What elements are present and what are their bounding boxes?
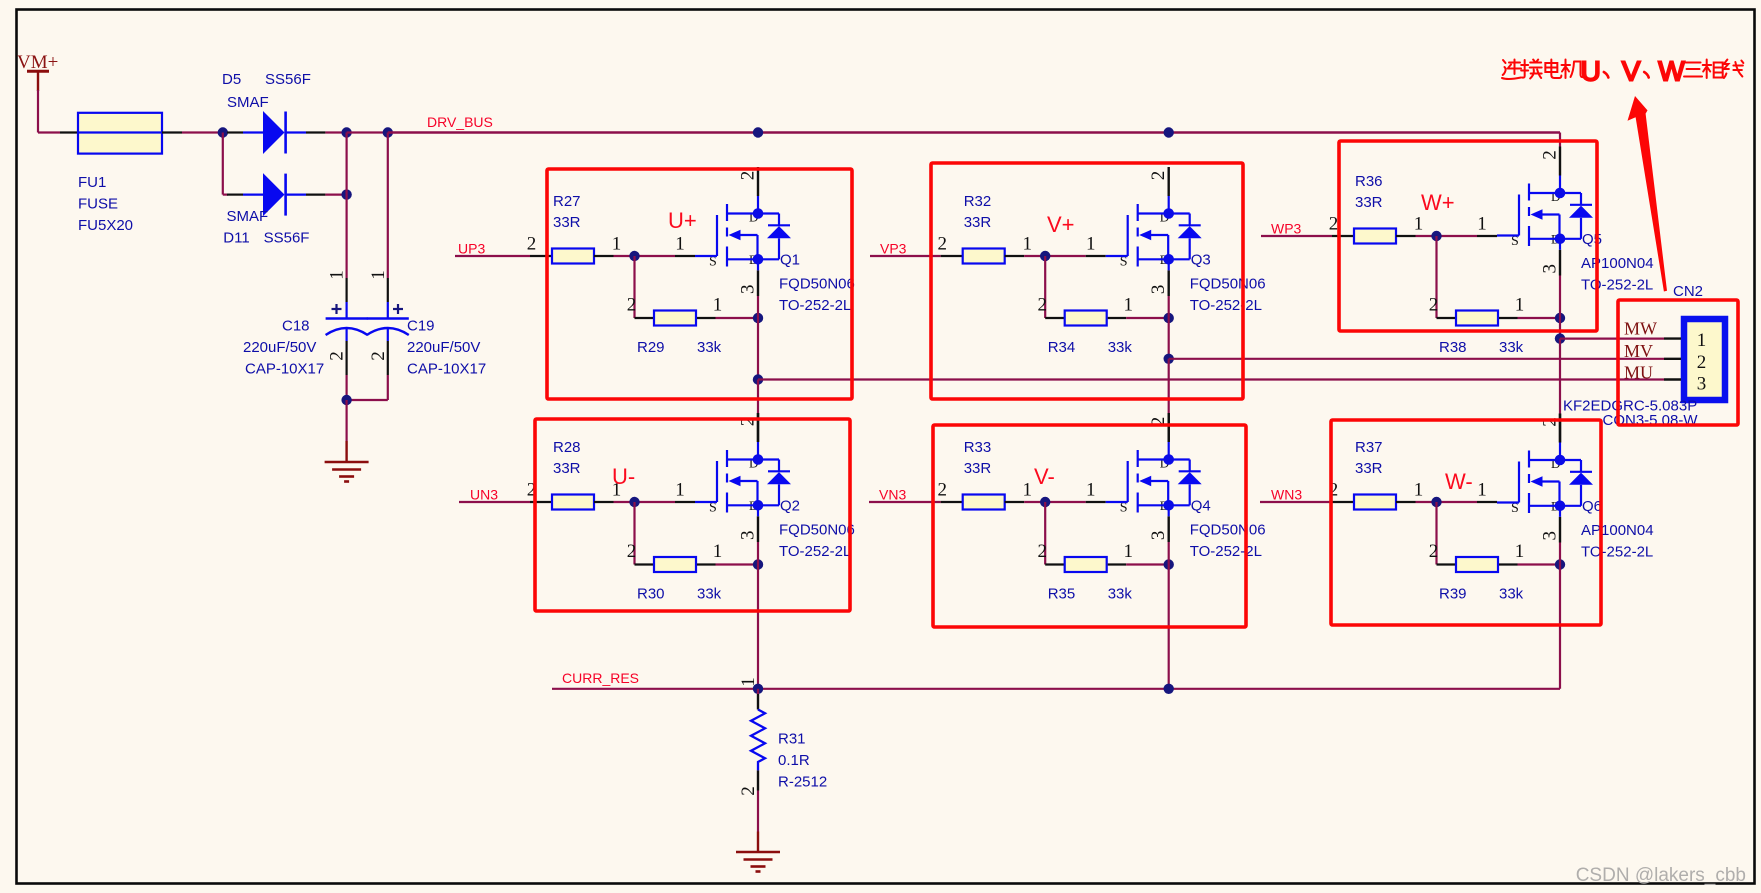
wire MU phase output (758, 378, 1664, 380)
wire gate junction down to R38 (1435, 236, 1437, 318)
svg-text:1: 1 (612, 234, 622, 255)
svg-text:Q4: Q4 (1191, 498, 1211, 515)
gate node junction (1477, 235, 1497, 237)
svg-text:1: 1 (1022, 480, 1032, 501)
node R31 tap junction (753, 684, 763, 694)
resistor R35 33k (1045, 563, 1065, 565)
svg-text:1: 1 (738, 677, 759, 687)
svg-text:U+: U+ (668, 208, 697, 233)
svg-text:1: 1 (713, 295, 723, 316)
annotation box U+ (547, 169, 852, 399)
svg-text:UN3: UN3 (470, 486, 498, 502)
transistor Q2 FQD50N06 (695, 442, 791, 516)
svg-text:CURR_RES: CURR_RES (562, 670, 639, 686)
wire node A down to D11 (222, 133, 224, 195)
svg-text:2: 2 (1429, 295, 1439, 316)
connector CN2 KF2EDGRC body (1684, 319, 1725, 400)
wire gate junction down to R35 (1044, 502, 1046, 565)
transistor Q6 AP100N04 (1497, 443, 1593, 517)
svg-text:Q1: Q1 (780, 252, 800, 269)
wire Q6 source to CURR_RES (1559, 543, 1561, 689)
svg-text:FUSE: FUSE (78, 196, 118, 213)
svg-text:R32: R32 (964, 193, 992, 210)
svg-text:CN2: CN2 (1673, 283, 1703, 300)
wire MW phase output (1560, 338, 1664, 340)
wire UN3 to R28 (459, 501, 530, 503)
svg-text:1: 1 (675, 234, 685, 255)
svg-text:R27: R27 (553, 193, 581, 210)
svg-text:D11: D11 (223, 230, 249, 247)
svg-text:W: W (1658, 56, 1685, 87)
diode D5 SS56F (227, 131, 243, 133)
svg-text:AP100N04: AP100N04 (1581, 255, 1654, 272)
svg-text:FQD50N06: FQD50N06 (779, 276, 855, 293)
svg-text:Q6: Q6 (1582, 498, 1602, 515)
annotation title text (1502, 56, 1743, 87)
wire Q5 source to W output node (1559, 276, 1561, 339)
svg-text:UP3: UP3 (458, 240, 485, 256)
wire WN3 to R37 (1260, 501, 1332, 503)
annotation box U- (535, 419, 850, 611)
ground capacitor bank (325, 462, 369, 482)
svg-text:1: 1 (675, 480, 685, 501)
svg-text:MU: MU (1624, 363, 1653, 383)
svg-text:V-: V- (1034, 464, 1055, 489)
node C19 tap junction (383, 127, 393, 137)
svg-text:TO-252-2L: TO-252-2L (1581, 544, 1653, 561)
CN2 pin 1 stub (1664, 337, 1681, 339)
svg-text:FU5X20: FU5X20 (78, 217, 133, 234)
capacitor C19 220uF/50V (387, 133, 389, 279)
annotation box CN2 (1618, 300, 1738, 425)
svg-text:33k: 33k (1499, 586, 1524, 603)
svg-text:WN3: WN3 (1271, 486, 1302, 502)
svg-text:R30: R30 (637, 586, 665, 603)
svg-text:TO-252-2L: TO-252-2L (1190, 297, 1262, 314)
svg-text:MW: MW (1624, 319, 1657, 339)
resistor R28 33R (530, 501, 552, 503)
source pin stub Q6 (1559, 517, 1561, 543)
drain pin stub Q6 (1559, 414, 1561, 443)
gate node junction (1086, 255, 1106, 257)
drain pin stub Q2 (757, 413, 759, 442)
svg-text:1: 1 (1515, 295, 1525, 316)
wire gate junction down to R29 (633, 256, 635, 318)
svg-text:1: 1 (1515, 541, 1525, 562)
svg-text:33R: 33R (964, 460, 992, 477)
node cap ground junction (341, 395, 351, 405)
svg-text:2: 2 (368, 351, 389, 361)
annotation box W+ (1339, 141, 1597, 331)
svg-text:220uF/50V: 220uF/50V (407, 339, 480, 356)
svg-text:R36: R36 (1355, 173, 1383, 190)
wire fuse to diode node (182, 131, 223, 133)
wire D5 node to C19 node (347, 131, 388, 133)
svg-text:1: 1 (1697, 330, 1707, 351)
resistor R39 33k (1437, 563, 1457, 565)
wire MV phase output (1169, 358, 1664, 360)
svg-text:TO-252-2L: TO-252-2L (1581, 277, 1653, 294)
wire U output down to Q2 drain (757, 380, 759, 414)
svg-text:Q3: Q3 (1191, 252, 1211, 269)
svg-text:2: 2 (1429, 541, 1439, 562)
resistor R37 33R (1332, 501, 1354, 503)
svg-text:W+: W+ (1421, 190, 1455, 215)
svg-text:CSDN @lakers_cbb: CSDN @lakers_cbb (1576, 865, 1746, 886)
wire UP3 to R27 (455, 255, 530, 257)
svg-text:W-: W- (1445, 469, 1473, 494)
svg-text:V: V (1622, 56, 1641, 87)
gate node junction (1086, 501, 1106, 503)
svg-text:FQD50N06: FQD50N06 (1190, 522, 1266, 539)
transistor Q3 FQD50N06 (1106, 196, 1202, 270)
svg-text:FU1: FU1 (78, 174, 106, 191)
wire VP3 to R32 (870, 255, 941, 257)
svg-text:TO-252-2L: TO-252-2L (779, 297, 851, 314)
svg-text:2: 2 (627, 541, 637, 562)
svg-text:FQD50N06: FQD50N06 (779, 522, 855, 539)
gate node junction (675, 255, 695, 257)
svg-text:CAP-10X17: CAP-10X17 (245, 361, 324, 378)
source pin stub Q1 (757, 270, 759, 296)
wire W output down to Q6 drain (1559, 339, 1561, 414)
ground shunt (736, 852, 780, 872)
svg-text:2: 2 (738, 786, 759, 796)
svg-text:C18: C18 (282, 318, 310, 335)
svg-text:R35: R35 (1048, 586, 1076, 603)
svg-text:R-2512: R-2512 (778, 774, 827, 791)
source pin stub Q5 (1559, 250, 1561, 276)
svg-text:2: 2 (527, 234, 537, 255)
svg-text:VP3: VP3 (880, 240, 907, 256)
transistor Q1 FQD50N06 (695, 196, 791, 270)
svg-text:3: 3 (1148, 531, 1169, 541)
svg-text:3: 3 (1148, 285, 1169, 295)
svg-text:TO-252-2L: TO-252-2L (1190, 543, 1262, 560)
svg-text:0.1R: 0.1R (778, 752, 810, 769)
annotation arrow to CN2 (1628, 96, 1668, 292)
wire Q4 source to CURR_RES (1168, 542, 1170, 689)
svg-text:33k: 33k (697, 586, 722, 603)
svg-text:SMAF: SMAF (227, 94, 269, 111)
wire R31 to ground (757, 791, 759, 832)
drain pin stub Q1 (757, 167, 759, 196)
svg-text:2: 2 (1037, 541, 1047, 562)
wire gate junction down to R34 (1044, 256, 1046, 318)
node after D11 junction (341, 189, 351, 199)
transistor Q4 FQD50N06 (1106, 442, 1202, 516)
svg-text:33R: 33R (553, 214, 581, 231)
wire WP3 to R36 (1261, 235, 1332, 237)
diode D11 SS56F (227, 194, 243, 196)
svg-text:2: 2 (327, 351, 348, 361)
annotation box V- (933, 425, 1246, 627)
source pin stub Q4 (1167, 516, 1169, 542)
svg-text:R31: R31 (778, 731, 806, 748)
svg-text:3: 3 (1697, 374, 1707, 395)
svg-text:VN3: VN3 (879, 486, 906, 502)
svg-text:1: 1 (327, 270, 348, 280)
svg-text:FQD50N06: FQD50N06 (1190, 276, 1266, 293)
svg-text:R34: R34 (1048, 339, 1076, 356)
svg-text:33R: 33R (1355, 460, 1383, 477)
svg-text:R39: R39 (1439, 586, 1467, 603)
svg-text:33k: 33k (1108, 586, 1133, 603)
svg-text:SS56F: SS56F (265, 71, 311, 88)
svg-text:33R: 33R (964, 214, 992, 231)
node U drain tap (753, 127, 763, 137)
wire Q2 source to CURR_RES (757, 542, 759, 689)
svg-text:3: 3 (738, 285, 759, 295)
svg-text:MV: MV (1624, 341, 1653, 361)
wire C19 bottom to C18 bottom (347, 399, 388, 401)
svg-text:3: 3 (1540, 264, 1561, 274)
svg-text:D5: D5 (222, 71, 241, 88)
gate node junction (1477, 501, 1497, 503)
svg-text:AP100N04: AP100N04 (1581, 522, 1654, 539)
svg-text:1: 1 (1414, 480, 1424, 501)
svg-text:2: 2 (937, 234, 947, 255)
svg-text:2: 2 (627, 295, 637, 316)
svg-text:V+: V+ (1047, 212, 1075, 237)
svg-text:3: 3 (738, 531, 759, 541)
svg-text:2: 2 (937, 480, 947, 501)
svg-text:R33: R33 (964, 439, 992, 456)
resistor R36 33R (1332, 235, 1354, 237)
resistor R30 33k (635, 563, 655, 565)
svg-text:1: 1 (1123, 541, 1133, 562)
svg-text:33k: 33k (1499, 339, 1524, 356)
wire Q1 source to U output node (757, 296, 759, 380)
svg-text:2: 2 (1540, 150, 1561, 160)
CN2 pin 2 stub (1664, 358, 1681, 360)
svg-text:2: 2 (1037, 295, 1047, 316)
svg-text:1: 1 (1477, 480, 1487, 501)
svg-text:2: 2 (1697, 352, 1707, 373)
svg-text:1: 1 (1123, 295, 1133, 316)
svg-text:1: 1 (368, 270, 389, 280)
resistor R32 33R (941, 255, 963, 257)
node U output junction (753, 374, 763, 384)
svg-text:33R: 33R (553, 460, 581, 477)
svg-text:33k: 33k (697, 339, 722, 356)
svg-text:1: 1 (1414, 214, 1424, 235)
wire gate junction down to R30 (633, 502, 635, 565)
wire V output down to Q4 drain (1168, 359, 1170, 413)
drain pin stub Q4 (1167, 413, 1169, 442)
wire bus to Q5 drain (1559, 133, 1561, 147)
gate node junction (675, 501, 695, 503)
resistor R34 33k (1045, 317, 1065, 319)
node after D5 junction (341, 127, 351, 137)
svg-text:Q2: Q2 (780, 498, 800, 515)
transistor Q5 AP100N04 (1497, 176, 1593, 250)
svg-text:C19: C19 (407, 318, 435, 335)
svg-text:1: 1 (1477, 214, 1487, 235)
svg-text:33k: 33k (1108, 339, 1133, 356)
svg-text:TO-252-2L: TO-252-2L (779, 543, 851, 560)
resistor R38 33k (1437, 317, 1457, 319)
node V output junction (1164, 354, 1174, 364)
svg-text:SS56F: SS56F (264, 230, 310, 247)
wire DRV_BUS main bus (388, 131, 1560, 133)
svg-text:1: 1 (713, 541, 723, 562)
node A diode input junction (218, 127, 228, 137)
svg-text:U: U (1581, 56, 1601, 87)
resistor R27 33R (530, 255, 552, 257)
svg-text:1: 1 (1022, 234, 1032, 255)
svg-text:33R: 33R (1355, 194, 1383, 211)
capacitor C18 220uF/50V (346, 133, 348, 279)
node V drain tap (1164, 127, 1174, 137)
wire CURR_RES (552, 688, 1560, 690)
wire gate junction down to R39 (1435, 502, 1437, 565)
node W output junction (1555, 333, 1565, 343)
svg-text:R37: R37 (1355, 439, 1383, 456)
svg-text:WP3: WP3 (1271, 220, 1302, 236)
svg-text:1: 1 (1086, 234, 1096, 255)
annotation box V+ (931, 163, 1243, 399)
resistor R29 33k (635, 317, 655, 319)
wire Q3 source to V output node (1168, 296, 1170, 359)
drain pin stub Q3 (1167, 167, 1169, 196)
svg-text:Q5: Q5 (1582, 231, 1602, 248)
fuse FU1 FU5X20 (60, 131, 78, 133)
wire VN3 to R33 (869, 501, 941, 503)
source pin stub Q3 (1167, 270, 1169, 296)
drain pin stub Q5 (1559, 147, 1561, 176)
svg-text:R28: R28 (553, 439, 581, 456)
svg-text:1: 1 (1086, 480, 1096, 501)
node V source junction (1164, 684, 1174, 694)
wire caps to ground (346, 400, 348, 441)
CN2 pin 3 stub (1664, 378, 1681, 380)
svg-text:DRV_BUS: DRV_BUS (427, 114, 493, 130)
svg-text:220uF/50V: 220uF/50V (243, 339, 316, 356)
svg-text:U-: U- (612, 464, 635, 489)
svg-text:R29: R29 (637, 339, 665, 356)
C19 plus sign (393, 308, 403, 310)
svg-text:2: 2 (738, 171, 759, 181)
C18 plus sign (332, 308, 342, 310)
wire VM+ to fuse (37, 90, 39, 133)
svg-text:SMAF: SMAF (227, 208, 269, 225)
svg-text:CAP-10X17: CAP-10X17 (407, 361, 486, 378)
svg-text:3: 3 (1540, 531, 1561, 541)
source pin stub Q2 (757, 516, 759, 542)
svg-text:2: 2 (1329, 214, 1339, 235)
resistor R33 33R (941, 501, 963, 503)
svg-text:2: 2 (1148, 171, 1169, 181)
annotation box W- (1331, 420, 1601, 625)
svg-text:R38: R38 (1439, 339, 1467, 356)
